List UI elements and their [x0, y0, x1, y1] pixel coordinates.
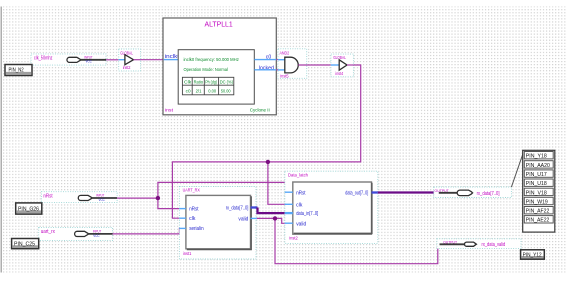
input pin uart_rx — [39, 227, 113, 240]
svg-text:GLOBAL: GLOBAL — [333, 55, 346, 60]
svg-text:PIN_G26: PIN_G26 — [18, 206, 39, 212]
global buffer inst4 — [331, 54, 354, 77]
svg-text:inst: inst — [165, 108, 174, 114]
svg-text:PIN_AA20: PIN_AA20 — [526, 163, 550, 169]
wire valid from UART_RX to Data_latch valid — [251, 217, 257, 219]
svg-text:PIN_N2: PIN_N2 — [9, 68, 24, 74]
svg-text:nRst: nRst — [296, 190, 306, 196]
wire nRst input to junction — [117, 197, 158, 199]
svg-text:Cyclone II: Cyclone II — [250, 107, 270, 113]
svg-text:PIN_Y18: PIN_Y18 — [526, 154, 547, 160]
svg-text:GLOBAL: GLOBAL — [120, 51, 133, 56]
svg-text:VCC: VCC — [86, 60, 93, 64]
bus rx_data from UART_RX to Data_latch data_in — [251, 206, 258, 208]
wire c0 to and gate — [276, 59, 279, 61]
clk net branch to Data_latch clk — [268, 162, 286, 204]
svg-text:nRst: nRst — [189, 206, 199, 212]
svg-text:PIN_U17: PIN_U17 — [526, 172, 547, 178]
global buffer inst2 — [119, 49, 141, 71]
svg-text:clk_50mhz: clk_50mhz — [34, 56, 53, 62]
svg-text:PIN_W19: PIN_W19 — [526, 199, 548, 205]
input pin nRst — [41, 192, 117, 203]
svg-text:inst2: inst2 — [289, 236, 298, 242]
svg-text:nRst: nRst — [43, 193, 53, 199]
svg-text:Clk: Clk — [184, 80, 192, 85]
op module ALTPLL1 — [163, 18, 276, 115]
svg-text:clk: clk — [296, 202, 303, 208]
svg-text:uart_rx: uart_rx — [41, 229, 56, 235]
junction nRst net — [156, 196, 160, 200]
svg-text:DC (%): DC (%) — [220, 80, 234, 85]
junction valid net — [273, 216, 277, 220]
svg-text:PIN_U18: PIN_U18 — [526, 181, 547, 187]
svg-text:valid: valid — [296, 221, 306, 227]
output pin rx_data_valid — [437, 239, 521, 249]
svg-text:inst1: inst1 — [183, 251, 192, 257]
svg-text:Data_latch: Data_latch — [288, 172, 308, 178]
svg-text:0.00: 0.00 — [208, 88, 216, 93]
svg-text:data_in[7..0]: data_in[7..0] — [296, 211, 318, 217]
wire clk_50mhz to global buffer — [106, 59, 119, 61]
wire valid branch to output rx_data_valid — [275, 218, 438, 263]
wire junction down to UART_RX nRst — [158, 198, 180, 209]
svg-text:Operation Mode: Normal: Operation Mode: Normal — [184, 67, 228, 73]
svg-text:AND2: AND2 — [280, 50, 290, 55]
svg-text:inclk0 frequency: 50.000 MHz: inclk0 frequency: 50.000 MHz — [184, 57, 240, 63]
PIN_C25 location box — [12, 239, 39, 249]
svg-text:UART_RX: UART_RX — [183, 187, 201, 193]
pin location list — [523, 150, 555, 232]
wire locked to and gate — [276, 69, 279, 71]
module UART_RX — [179, 187, 256, 260]
PIN_N2 location box — [5, 65, 32, 76]
svg-text:data_out[7..0]: data_out[7..0] — [345, 191, 368, 197]
svg-text:VCC: VCC — [99, 198, 106, 202]
svg-text:c0: c0 — [186, 88, 191, 93]
junction clk net — [266, 160, 270, 164]
svg-text:2/1: 2/1 — [196, 88, 202, 93]
svg-text:ALTPLL1: ALTPLL1 — [205, 19, 233, 28]
svg-text:PIN_AE22: PIN_AE22 — [526, 218, 550, 224]
svg-text:PIN_AF22: PIN_AF22 — [526, 209, 550, 215]
wire global to ALTPLL1 — [141, 59, 163, 61]
connector line to pin list — [511, 152, 523, 187]
module Data_latch — [285, 171, 378, 243]
bus data_out from Data_latch to output — [372, 191, 378, 193]
clk net wire: global inst4 output down and left to clk ports — [172, 65, 360, 218]
svg-text:PIN_C25: PIN_C25 — [14, 242, 35, 248]
PIN_G26 location box — [16, 203, 42, 214]
svg-text:serialin: serialin — [189, 226, 204, 232]
svg-text:valid: valid — [238, 216, 248, 222]
wire and gate to global inst4 — [298, 64, 331, 66]
svg-text:rx_data[7..0]: rx_data[7..0] — [477, 191, 500, 197]
svg-text:rx_data_valid: rx_data_valid — [482, 242, 506, 248]
output pin rx_data[7..0] — [434, 187, 512, 198]
svg-text:Ratio: Ratio — [194, 80, 204, 85]
input pin clk_50mhz — [31, 54, 106, 65]
and gate AND2 inst5 — [278, 49, 307, 79]
svg-text:inst5: inst5 — [280, 73, 289, 78]
svg-text:inst4: inst4 — [335, 71, 343, 76]
parameter table — [182, 77, 233, 95]
wire junction up and over to Data_latch nRst — [158, 182, 290, 198]
svg-text:inst2: inst2 — [123, 65, 131, 70]
svg-text:PIN_Y12: PIN_Y12 — [523, 253, 542, 259]
svg-text:clk: clk — [189, 216, 196, 222]
canvas left border — [0, 7, 2, 273]
PIN_Y12 location box — [521, 250, 545, 259]
parameter box — [178, 50, 254, 104]
wire uart_rx to serialin — [113, 228, 181, 234]
svg-text:50.00: 50.00 — [221, 88, 231, 93]
svg-text:locked: locked — [259, 66, 274, 72]
svg-text:PIN_V18: PIN_V18 — [526, 190, 547, 196]
svg-text:rx_data[7..0]: rx_data[7..0] — [226, 206, 249, 212]
svg-text:Ph (dg): Ph (dg) — [205, 80, 217, 85]
svg-text:VCC: VCC — [93, 234, 100, 238]
